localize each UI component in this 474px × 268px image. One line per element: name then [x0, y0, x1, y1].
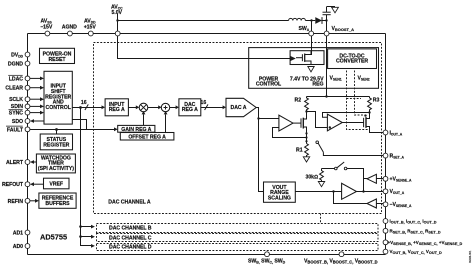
arrowhead CLEAR	[40, 86, 44, 90]
pin FAULT	[25, 127, 30, 132]
box vout range scaling	[264, 182, 296, 202]
pin Vboost_a	[324, 31, 329, 36]
op-amp A3 vout buffer	[342, 183, 357, 199]
pin +Vsense_a	[383, 176, 388, 181]
svg-text:+15V: +15V	[84, 24, 97, 30]
wire shift register to gain reg step	[72, 120, 86, 130]
DAC CHANNEL D dashed box	[97, 244, 379, 251]
dashed sense stub	[347, 98, 362, 100]
pin stub SYNC	[30, 112, 41, 114]
pin stub LDAC	[30, 77, 41, 79]
arrowhead SDO out	[30, 119, 34, 123]
svg-text:BUFFERS: BUFFERS	[45, 201, 70, 207]
arrowhead SCLK	[40, 97, 44, 101]
pin Vout_a	[383, 189, 388, 194]
pin REFIN	[25, 198, 30, 203]
resistor R3	[368, 97, 372, 113]
amp A1 feedback loop	[273, 128, 307, 138]
pin stub CLEAR	[30, 87, 41, 89]
op-amp A1	[279, 115, 293, 131]
arrowhead REFOUT out	[34, 183, 44, 185]
wire inductor to diode	[305, 20, 315, 22]
resistor R4 30k	[320, 169, 324, 182]
mosfet Q2	[363, 118, 365, 127]
wire fault branch to status register	[56, 130, 58, 135]
svg-text:ALERT: ALERT	[6, 160, 24, 166]
box input shift register and control	[44, 71, 72, 124]
wire SWa into regulator mosfet drain	[305, 36, 312, 55]
pin AVss	[45, 31, 50, 36]
svg-text:(SPI ACTIVITY): (SPI ACTIVITY)	[38, 166, 74, 172]
pin +Vsense_bcd	[383, 240, 388, 245]
DAC CHANNEL C dashed box	[97, 234, 379, 242]
arrowhead into adder	[158, 105, 161, 109]
svg-text:R1: R1	[296, 148, 303, 154]
vout buffer feedback lower loop	[334, 192, 368, 204]
pin stub SDIN	[30, 105, 41, 107]
arrowhead gain to multiplier	[142, 111, 146, 114]
pin LDAC	[25, 76, 30, 81]
wire Vboost down to R2 R3 rail	[326, 36, 328, 97]
svg-text:CONTROL: CONTROL	[46, 105, 72, 111]
svg-text:OFFSET REG A: OFFSET REG A	[128, 134, 166, 140]
box offset reg A	[120, 133, 174, 141]
regulator output arrow	[308, 67, 314, 72]
box power control	[249, 48, 379, 89]
pin Iout_bcd	[383, 219, 388, 224]
wire branch to output amp A1	[259, 118, 279, 120]
svg-text:CONVERTER: CONVERTER	[336, 59, 368, 65]
switch S1 to Rset	[316, 141, 319, 144]
wire 16-bit bus to input reg A	[72, 107, 102, 109]
svg-text:AD1: AD1	[13, 231, 23, 237]
svg-text:DAC CHANNEL C: DAC CHANNEL C	[109, 235, 152, 241]
box regulator mosfet	[290, 51, 324, 65]
svg-text:AGND: AGND	[62, 24, 77, 30]
svg-text:VREF: VREF	[49, 182, 63, 188]
svg-text:REFIN: REFIN	[8, 199, 24, 205]
inductor L1	[289, 18, 306, 20]
arrowhead ALERT out	[34, 161, 36, 163]
pin SDO	[25, 119, 30, 124]
pin CLEAR	[25, 85, 30, 90]
arrowhead into dac reg A	[176, 105, 179, 109]
svg-text:REGISTER: REGISTER	[43, 142, 69, 148]
svg-text:GAIN REG A: GAIN REG A	[121, 127, 151, 133]
arrowhead channel C	[91, 235, 95, 239]
arrowhead into input reg A	[102, 105, 106, 109]
box vref	[44, 178, 70, 189]
svg-text:DAC CHANNEL B: DAC CHANNEL B	[109, 226, 152, 232]
svg-text:30kΩ: 30kΩ	[306, 174, 319, 180]
wire AVcc to regulator	[118, 14, 291, 59]
pin AD0	[25, 244, 30, 249]
chip outline bus bottom	[28, 254, 386, 256]
wire Vboost stub	[326, 21, 328, 32]
svg-text:DAC A: DAC A	[231, 105, 247, 111]
chip outline bus right	[385, 34, 387, 255]
DAC CHANNEL A dashed boundary	[94, 43, 382, 214]
chip outline bus top	[28, 33, 386, 35]
pin AVdd	[88, 31, 93, 36]
wire input reg to multiplier	[128, 107, 136, 109]
ground arrow below 30k	[318, 182, 324, 187]
pin ALERT	[25, 160, 30, 165]
arrowhead offset to adder	[164, 111, 168, 114]
svg-text:RESET: RESET	[48, 57, 66, 63]
dashed sense line Vsen1	[347, 71, 369, 130]
wire R2 node to amp A2 lower input	[307, 112, 330, 128]
pin SWa	[309, 31, 314, 36]
slash 16 marker 2	[205, 104, 208, 110]
svg-text:DAC CHANNEL A: DAC CHANNEL A	[108, 200, 151, 206]
DAC CHANNEL B dashed box	[97, 224, 379, 233]
pin -Vsense_a	[383, 202, 388, 207]
pin Iout_a	[383, 130, 388, 135]
pin AGND	[68, 31, 73, 36]
arrowhead REFIN in	[30, 200, 35, 202]
svg-text:CLEAR: CLEAR	[5, 86, 23, 92]
regulator mosfet Q3	[296, 57, 302, 59]
svg-text:R2: R2	[295, 98, 302, 104]
arrow avcc into regulator	[291, 56, 296, 61]
pin Rset_a	[383, 153, 388, 158]
wire gain reg to multiplier	[143, 114, 145, 125]
+Vsense buffer B1	[367, 174, 376, 183]
box gain reg A	[118, 125, 155, 132]
wire multiplier to adder	[148, 107, 159, 109]
adder node	[161, 103, 169, 111]
wire branch to channel C	[81, 236, 92, 238]
svg-text:−15V: −15V	[40, 24, 53, 30]
wire vout scaling to buffer to pin	[295, 191, 341, 193]
ground arrow below R1	[303, 157, 309, 162]
pin DGND	[25, 61, 30, 66]
pin AD1	[25, 230, 30, 235]
svg-text:FAULT: FAULT	[7, 127, 24, 133]
pin stub SDO	[34, 120, 45, 122]
arrowhead into DAC A	[223, 105, 226, 109]
svg-text:SCALING: SCALING	[268, 195, 291, 201]
wire switch S2 and 30k to vout buffer	[322, 168, 335, 170]
resistor R1	[305, 144, 309, 157]
arrowhead LDAC	[40, 77, 44, 81]
box watchdog timer	[36, 154, 75, 173]
op-amp A2	[327, 114, 342, 131]
pin SCLK	[25, 97, 30, 102]
wire boost top rail	[118, 20, 289, 22]
arrowhead SYNC	[40, 111, 44, 115]
box status register	[40, 134, 72, 150]
wire SWa stub	[311, 21, 313, 32]
svg-text:R3: R3	[373, 98, 380, 104]
wire A2 upper input feedback from R3 node	[323, 113, 370, 118]
ground symbol top right	[332, 7, 339, 13]
dashed link channel A to channel B	[320, 214, 322, 224]
dashed sense line Vsen2	[355, 71, 365, 116]
pin AVcc	[115, 31, 120, 36]
wire offset reg to adder	[165, 114, 167, 132]
pin REFOUT	[25, 182, 30, 187]
box reference buffers	[39, 193, 76, 208]
svg-text:09466-001: 09466-001	[468, 250, 472, 263]
svg-text:VBOOST_A: VBOOST_A	[332, 26, 355, 32]
arrowhead channel B	[91, 225, 95, 229]
multiplier node	[139, 103, 148, 112]
mosfet Q1	[293, 122, 301, 124]
pin DVdd	[25, 52, 30, 57]
diode D1	[315, 17, 322, 24]
box power-on reset	[40, 48, 75, 63]
pin stub SCLK	[30, 98, 41, 100]
pin SW_bcd	[265, 252, 270, 257]
pin Vout_bcd	[383, 249, 388, 254]
slash 16 marker	[85, 104, 88, 110]
svg-text:AD5755: AD5755	[40, 233, 67, 242]
wire FAULT to gain reg	[30, 129, 115, 131]
svg-text:REG A: REG A	[109, 107, 125, 113]
wire adder to DAC reg	[170, 107, 176, 109]
svg-text:DAC CHANNEL D: DAC CHANNEL D	[109, 244, 152, 250]
arrowhead into multiplier	[136, 105, 140, 109]
svg-text:VBOOST_B, VBOOST_C, VBOOST_D: VBOOST_B, VBOOST_C, VBOOST_D	[304, 259, 378, 265]
-Vsense buffer B2	[367, 199, 376, 208]
pin SYNC	[25, 110, 30, 115]
wire A2 to mosfet Q2 gate	[342, 122, 363, 124]
svg-text:LDAC: LDAC	[9, 77, 24, 83]
svg-text:16: 16	[81, 100, 87, 106]
DAC A pentagon	[226, 98, 256, 116]
wire DAC reg to DAC A	[201, 107, 224, 109]
arrow Vsen2 into dcdc	[353, 67, 356, 71]
svg-text:REG A: REG A	[182, 107, 198, 113]
svg-text:CONTROL: CONTROL	[256, 82, 282, 88]
svg-text:SCLK: SCLK	[9, 97, 23, 103]
wire data bus down to channels BCD	[81, 108, 92, 246]
svg-text:REFOUT: REFOUT	[2, 182, 24, 188]
wire DAC A output down to vout scaling	[256, 108, 263, 192]
chip outline bus left	[27, 34, 29, 255]
junction dots	[116, 19, 118, 21]
capacitor C1	[326, 15, 328, 21]
svg-text:DGND: DGND	[8, 62, 23, 68]
arrow Vsen1 into dcdc	[345, 67, 348, 71]
resistor R2	[305, 97, 309, 112]
svg-text:SYNC: SYNC	[9, 111, 24, 117]
svg-text:SDO: SDO	[12, 119, 23, 125]
wire R2 R3 rail	[307, 96, 370, 98]
pin Rset_bcd	[383, 228, 388, 233]
svg-text:5.0V: 5.0V	[112, 10, 123, 16]
svg-text:SWB, SWC, SWD: SWB, SWC, SWD	[248, 259, 286, 265]
box dc-to-dc converter	[328, 49, 377, 69]
svg-text:SDIN: SDIN	[11, 104, 23, 110]
arrowhead channel D	[91, 244, 95, 248]
wire branch to channel B	[81, 226, 92, 228]
svg-text:REG: REG	[312, 82, 323, 88]
wire diode to Vboost node	[322, 20, 327, 22]
arrowhead into gain reg A	[114, 127, 118, 131]
box dac reg A	[179, 99, 201, 116]
pin Vboost_bcd	[339, 252, 344, 257]
svg-text:16: 16	[201, 100, 207, 106]
arrowhead SDIN	[40, 105, 44, 109]
box input reg A	[105, 99, 128, 116]
svg-text:AD0: AD0	[13, 244, 23, 250]
pin SDIN	[25, 104, 30, 109]
